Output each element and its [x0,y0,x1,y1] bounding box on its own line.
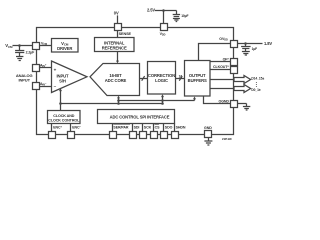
svg-text:D14_15±: D14_15± [251,77,264,81]
junction riser correction at line A [161,99,164,102]
label SDI [134,126,140,130]
wire SENSE pin to reference [117,31,119,38]
wire OGND to ground [238,103,247,105]
wire buffers to CLKOUT pin [210,69,231,71]
svg-text:D0_1±: D0_1± [251,88,260,92]
svg-text:SHDN: SHDN [176,126,186,130]
pin AIN- [33,83,40,90]
pin AIN+ [33,65,40,72]
svg-text:2165 BD: 2165 BD [222,137,232,141]
svg-text:S/H: S/H [59,78,66,83]
wire buffers to data bus lower [210,88,236,90]
junction riser correction at line B [161,102,164,105]
svg-text:SER/PAR: SER/PAR [113,126,129,130]
wire OVDD to 1.8V [238,43,263,45]
svg-text:REFERENCE: REFERENCE [102,45,127,50]
svg-text:SCK: SCK [144,126,152,130]
wire SHDN [174,124,176,132]
svg-text:GND: GND [204,126,212,130]
label AIN- [40,81,47,86]
wire clock riser to S/H (arrow) [59,88,62,110]
wire down to VDD pin [163,11,165,24]
junction riser ADC at line B [117,102,120,105]
pin OGND [231,101,238,108]
svg-text:OVDD: OVDD [219,37,228,42]
wire SDI [132,124,134,132]
block INTERNAL REFERENCE [95,38,135,52]
wire ADC core to correction logic [140,78,148,80]
pin VDD [161,24,168,31]
wire AIN+ to S/H [40,67,52,69]
svg-text:CLOCK AND: CLOCK AND [53,114,75,118]
node 2.5V label [147,8,155,13]
junction riser ADC at line A [117,99,120,102]
junction VCM [18,44,21,47]
ground (1uF cap) [242,52,250,56]
wire 2.5V rail [155,10,177,12]
pin OVDD [231,41,238,48]
label OF* [223,57,230,61]
capacitor 2.2uF [15,46,35,57]
label D14_15 [251,77,264,81]
wire correction logic to output buffers [176,78,185,80]
wire AIN- to S/H [40,86,52,88]
svg-text:OF*: OF* [223,57,230,61]
wire SER/PAR [112,124,114,132]
capacitor 1uF [241,44,257,52]
svg-text:INPUT: INPUT [18,77,30,82]
pin SHDN [172,132,179,139]
wire SDO [163,124,165,132]
label SHDN [176,126,186,130]
block CORRECTION LOGIC [148,62,176,95]
svg-text:BUFFERS: BUFFERS [188,78,207,83]
junction clock line B [59,102,62,105]
wire VCM pin to driver [40,45,52,47]
svg-text:CS: CS [155,126,160,130]
ground (OGND) [243,104,250,111]
figure number [222,137,232,141]
svg-text:ADC CONTROL SPI INTERFACE: ADC CONTROL SPI INTERFACE [110,114,170,119]
wire OVDD to output buffers [199,44,231,61]
wire buffers to data bus upper [210,79,236,81]
svg-text:AIN–: AIN– [40,81,47,86]
wire VCM source to pin [13,45,33,47]
pin VCM [33,43,40,50]
svg-text:ENC–: ENC– [72,125,81,130]
wire SCK [142,124,144,132]
node VCM supply label [5,43,13,49]
block 16-BIT ADC CORE [90,64,140,96]
junction OVDD cap [244,42,247,45]
svg-text:ENC+: ENC+ [53,125,62,130]
svg-text:DRIVER: DRIVER [57,46,72,51]
wire CS [153,124,155,132]
pin CLKOUT [231,67,238,74]
junction VDD [162,9,165,12]
wire buffers to OGND [204,96,231,104]
label VCM pin [41,42,47,47]
bus slash 2 with width 16 [179,74,183,80]
wire riser to correction logic (arrow) [161,94,164,103]
pin CS [151,132,158,139]
svg-text:2.2µF: 2.2µF [26,51,35,55]
capacitor 10uF [173,11,189,18]
label AIN+ [40,63,47,68]
svg-text:1µF: 1µF [252,47,258,51]
svg-text:SENSE: SENSE [119,32,132,36]
wire ENC+ [51,124,53,132]
label SER/PAR [113,126,129,130]
pin SENSE [115,24,122,31]
overline CS [155,124,159,126]
svg-text:LOGIC: LOGIC [155,78,168,83]
ground (GND pin) [204,138,212,146]
svg-text:CLOCK CONTROL: CLOCK CONTROL [48,119,80,123]
svg-text:SDO: SDO [165,126,173,130]
label CLKOUT* [213,65,229,69]
label CS [155,126,160,130]
pin SER/PAR [110,132,117,139]
label D0_1 [251,88,260,92]
label OVDD [219,37,228,42]
amplifier INPUT S/H [52,61,88,93]
overline SER/PAR [113,124,130,126]
pin SDI [130,132,137,139]
label VDD [160,32,166,37]
bus arrow D14_15 [234,76,251,84]
bus arrow D0_1 [234,85,251,93]
svg-text:ADC CORE: ADC CORE [105,78,127,83]
svg-text:1.8V: 1.8V [264,41,272,46]
label OGND [219,100,230,104]
block CLOCK AND CLOCK CONTROL [48,111,81,124]
wire clock line A [119,100,195,102]
svg-text:+: + [54,68,57,73]
block ADC CONTROL SPI INTERFACE [98,110,175,124]
pin SCK [140,132,147,139]
block VCM DRIVER [52,39,79,53]
label ENC+ [53,125,62,130]
ground (10uF cap) [173,19,180,22]
bus ellipsis dots [256,82,257,87]
label SDO [165,126,173,130]
svg-text:0V: 0V [114,11,119,16]
label ANALOG INPUT [16,73,33,82]
ground (VCM cap) [16,57,23,61]
wire ENC- [70,124,72,132]
block OUTPUT BUFFERS [185,61,211,97]
wire reference to ADC core (arrow) [116,52,119,64]
pin SDO [161,132,168,139]
bus slash 1 [142,76,145,81]
svg-text:SDI: SDI [134,126,140,130]
svg-text:VDD: VDD [160,32,166,37]
wire riser to output buffers (arrow) [193,97,196,101]
wire clock line B [61,103,163,105]
label ENC- [72,125,81,130]
pin ENC+ [49,132,56,139]
chip outline [37,28,234,135]
label SCK [144,126,152,130]
wire riser to ADC core (arrow) [117,96,120,104]
label SENSE [119,32,132,36]
svg-text:10µF: 10µF [181,14,188,18]
pin ENC- [68,132,75,139]
pin OF [231,59,238,66]
svg-text:16: 16 [179,74,183,78]
wire 0V to SENSE pin [117,15,119,23]
svg-text:CLKOUT*: CLKOUT* [213,65,229,69]
pin GND [205,131,212,138]
svg-text:2.5V: 2.5V [147,8,155,13]
svg-text:VCM: VCM [5,43,13,49]
node 1.8V label [264,41,272,46]
wire buffers to OF pin [210,61,231,63]
label GND [204,126,212,130]
node 0V label [114,11,119,16]
